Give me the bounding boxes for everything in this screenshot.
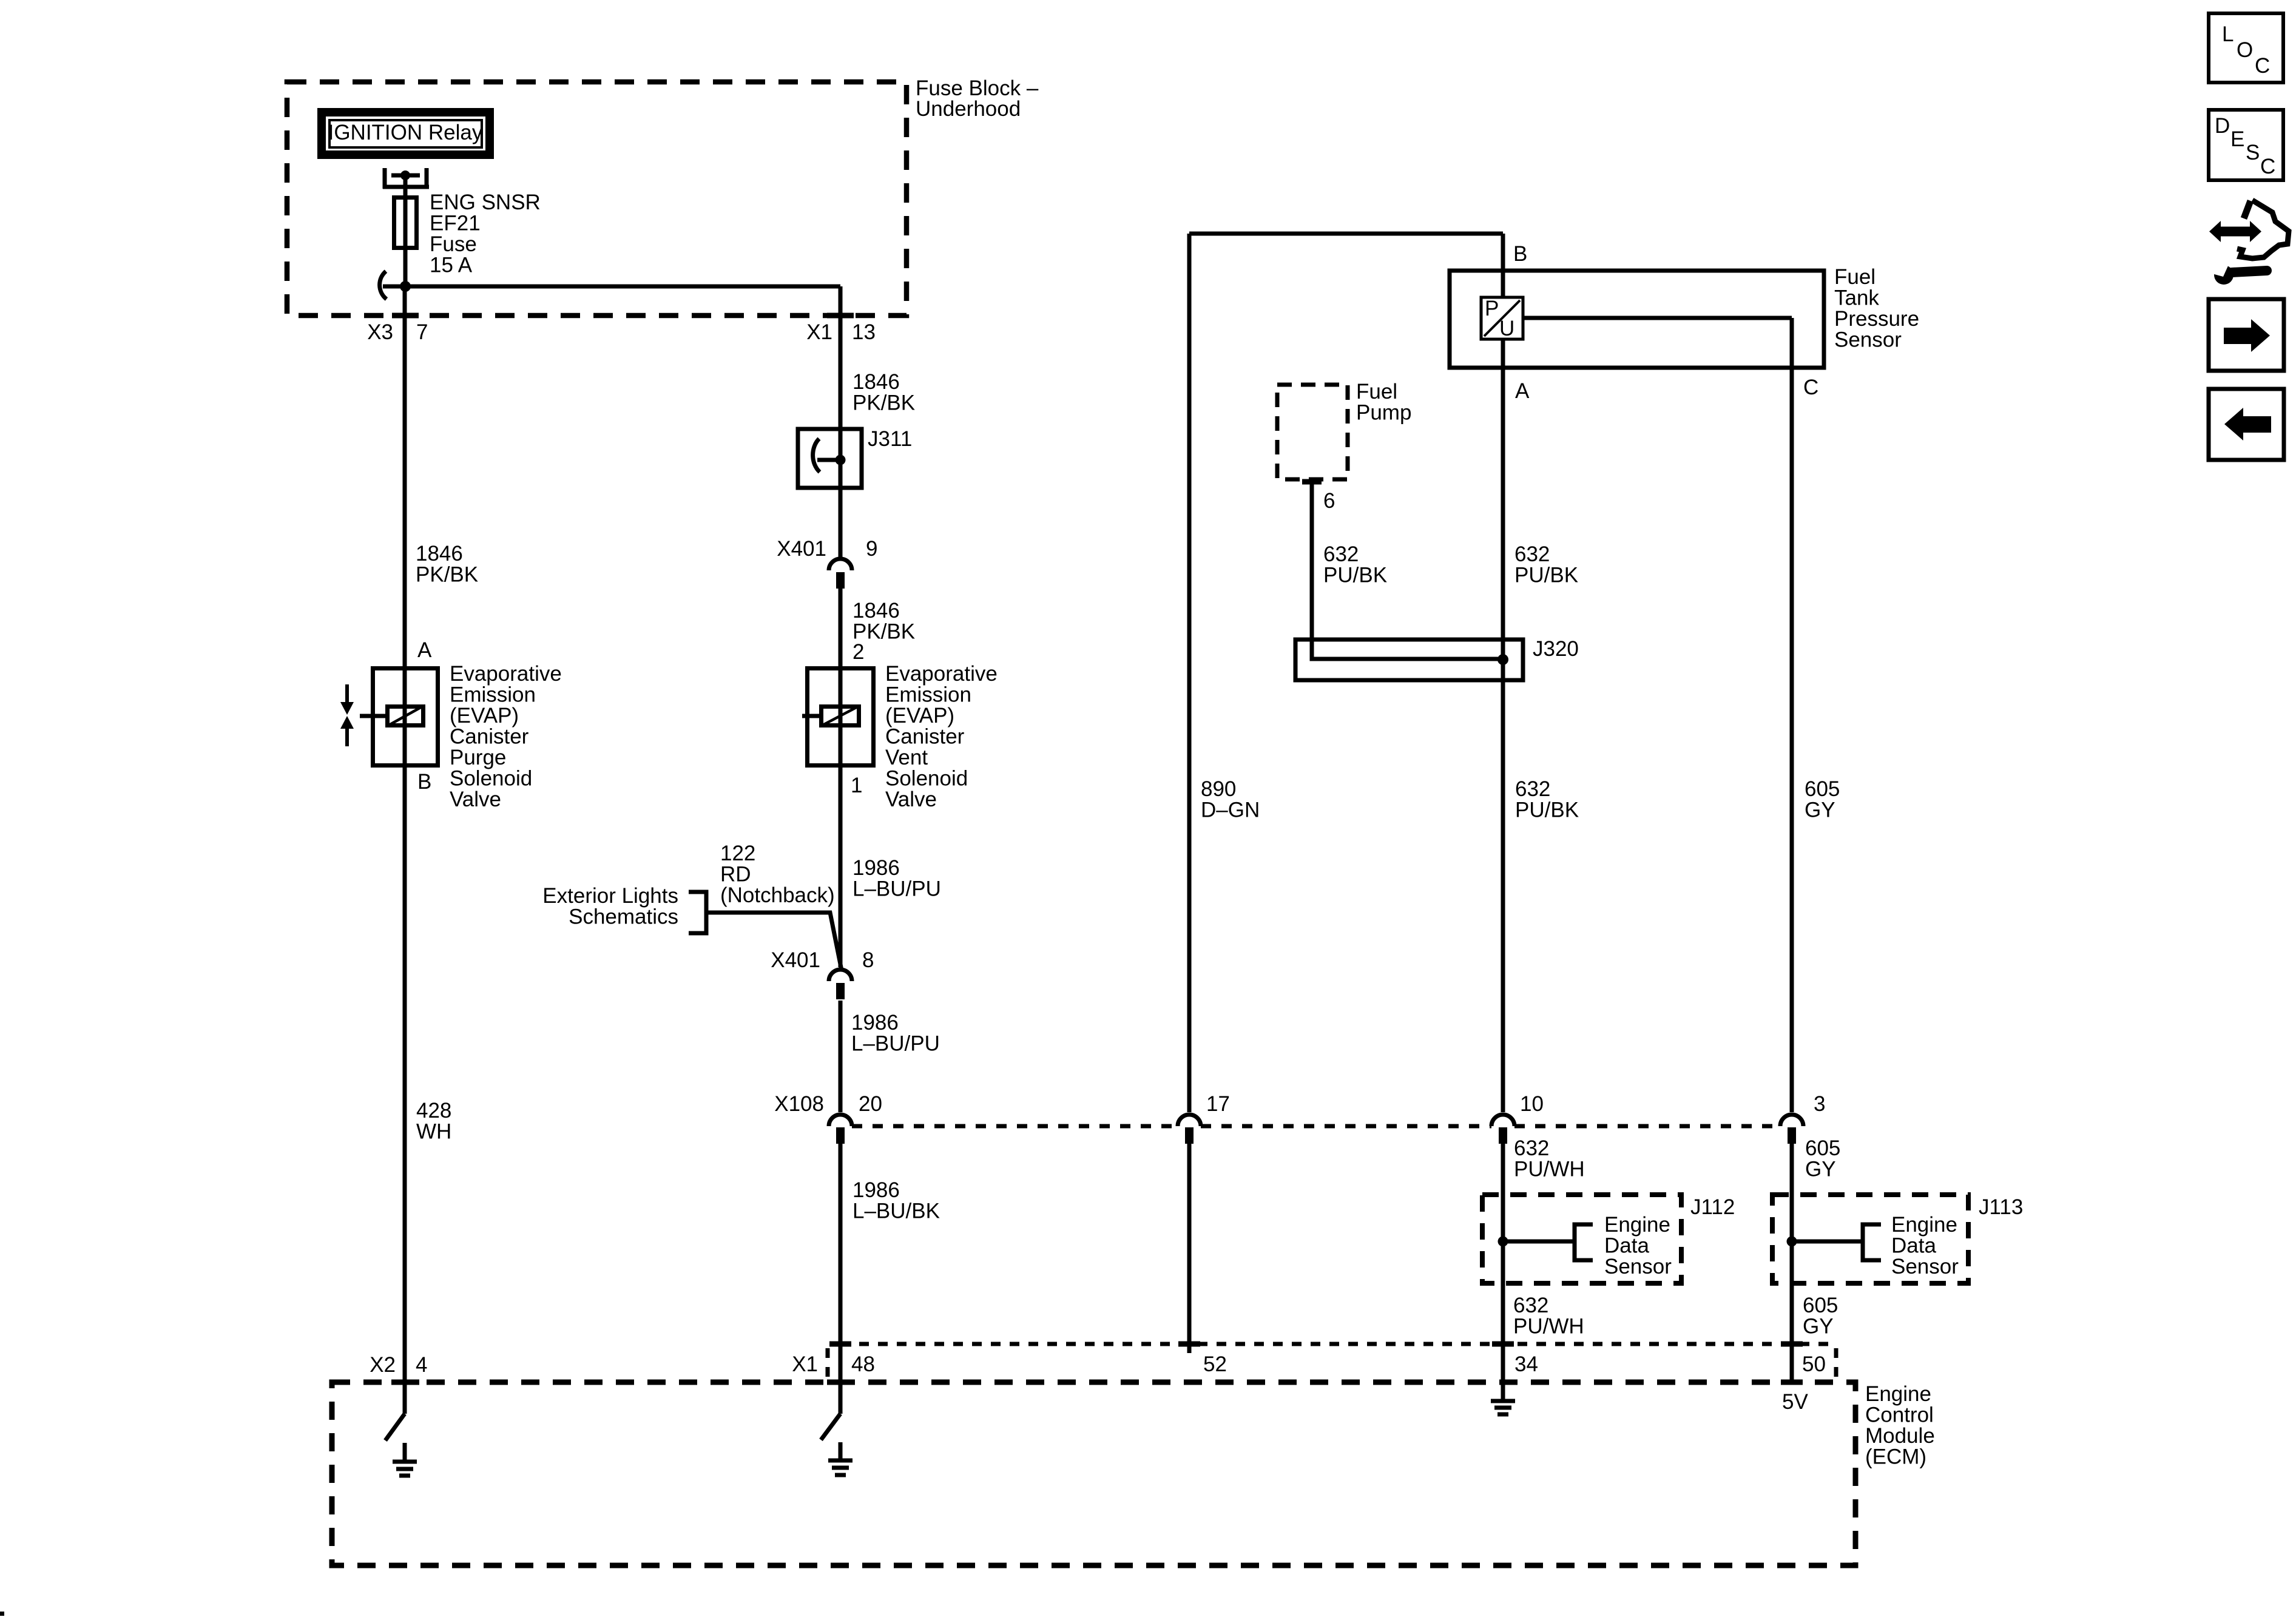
svg-text:A: A <box>417 638 432 662</box>
svg-text:632: 632 <box>1513 1294 1548 1317</box>
svg-text:1986: 1986 <box>853 856 900 880</box>
svg-text:IGNITION Relay: IGNITION Relay <box>328 121 483 144</box>
svg-text:Engine: Engine <box>1891 1213 1957 1237</box>
svg-text:632: 632 <box>1514 1136 1549 1160</box>
svg-text:428: 428 <box>416 1099 451 1122</box>
svg-text:Emission: Emission <box>885 683 971 707</box>
svg-text:122: 122 <box>720 842 755 865</box>
svg-text:Data: Data <box>1891 1234 1936 1258</box>
svg-text:3: 3 <box>1814 1092 1825 1116</box>
svg-text:A: A <box>1515 379 1530 403</box>
svg-text:1: 1 <box>851 774 862 797</box>
svg-text:PU/WH: PU/WH <box>1514 1158 1585 1181</box>
svg-text:1846: 1846 <box>853 599 900 623</box>
svg-text:WH: WH <box>416 1120 451 1144</box>
svg-text:C: C <box>1803 376 1818 399</box>
svg-text:J113: J113 <box>1979 1195 2023 1219</box>
svg-text:X3: X3 <box>367 320 393 344</box>
svg-text:RD: RD <box>720 863 751 886</box>
svg-text:2: 2 <box>853 640 864 664</box>
svg-text:Data: Data <box>1604 1234 1649 1258</box>
svg-text:605: 605 <box>1803 1294 1838 1317</box>
svg-text:J311: J311 <box>868 427 912 451</box>
svg-text:PU/WH: PU/WH <box>1513 1315 1584 1338</box>
svg-text:890: 890 <box>1201 777 1236 801</box>
svg-text:5V: 5V <box>1782 1390 1808 1414</box>
svg-text:S: S <box>2246 141 2260 164</box>
svg-text:X401: X401 <box>777 537 826 561</box>
svg-text:(EVAP): (EVAP) <box>450 704 519 727</box>
svg-text:Module: Module <box>1865 1424 1935 1448</box>
svg-text:632: 632 <box>1515 777 1550 801</box>
svg-text:52: 52 <box>1203 1352 1227 1376</box>
svg-text:Engine: Engine <box>1865 1382 1931 1406</box>
svg-text:ENG SNSR: ENG SNSR <box>430 191 541 214</box>
svg-text:7: 7 <box>416 320 428 344</box>
svg-text:Fuel: Fuel <box>1834 265 1876 289</box>
svg-text:Canister: Canister <box>450 725 529 749</box>
svg-text:1986: 1986 <box>851 1011 899 1035</box>
svg-text:6: 6 <box>1323 489 1335 513</box>
svg-text:8: 8 <box>862 948 874 972</box>
svg-text:L–BU/PU: L–BU/PU <box>853 877 941 901</box>
svg-text:Valve: Valve <box>450 788 501 811</box>
svg-text:GY: GY <box>1805 798 1835 822</box>
svg-text:D–GN: D–GN <box>1201 798 1260 822</box>
svg-text:Fuse: Fuse <box>430 232 477 256</box>
svg-text:Sensor: Sensor <box>1604 1255 1672 1278</box>
svg-text:20: 20 <box>859 1092 882 1116</box>
svg-text:C: C <box>2255 54 2270 78</box>
svg-text:P: P <box>1485 297 1499 320</box>
svg-text:Canister: Canister <box>885 725 965 749</box>
svg-text:X1: X1 <box>806 320 832 344</box>
svg-text:10: 10 <box>1520 1092 1544 1116</box>
svg-text:Sensor: Sensor <box>1834 328 1902 352</box>
svg-text:E: E <box>2230 127 2244 151</box>
svg-text:U: U <box>1499 317 1514 340</box>
svg-text:(Notchback): (Notchback) <box>720 883 835 907</box>
svg-text:34: 34 <box>1514 1352 1538 1376</box>
svg-text:PU/BK: PU/BK <box>1515 798 1579 822</box>
svg-text:Solenoid: Solenoid <box>885 767 968 791</box>
svg-text:Control: Control <box>1865 1403 1934 1427</box>
svg-text:X2: X2 <box>370 1353 396 1377</box>
svg-text:J112: J112 <box>1690 1195 1735 1219</box>
svg-text:Sensor: Sensor <box>1891 1255 1959 1278</box>
svg-text:15 A: 15 A <box>430 254 473 277</box>
svg-text:632: 632 <box>1323 542 1359 566</box>
svg-text:L: L <box>2222 22 2234 46</box>
svg-text:605: 605 <box>1805 1136 1840 1160</box>
svg-text:Pressure: Pressure <box>1834 307 1919 331</box>
svg-text:Schematics: Schematics <box>569 905 678 929</box>
svg-text:Emission: Emission <box>450 683 536 707</box>
svg-text:9: 9 <box>866 537 877 561</box>
svg-text:50: 50 <box>1802 1352 1826 1376</box>
svg-text:48: 48 <box>851 1352 875 1376</box>
svg-text:L–BU/PU: L–BU/PU <box>851 1032 940 1056</box>
svg-text:632: 632 <box>1514 542 1550 566</box>
svg-text:17: 17 <box>1206 1092 1230 1116</box>
svg-text:B: B <box>1513 242 1527 266</box>
svg-text:Solenoid: Solenoid <box>450 767 532 791</box>
svg-text:PU/BK: PU/BK <box>1323 564 1387 587</box>
svg-text:O: O <box>2237 38 2253 62</box>
svg-text:Pump: Pump <box>1356 401 1411 425</box>
svg-text:Evaporative: Evaporative <box>450 662 562 686</box>
svg-text:J320: J320 <box>1533 637 1579 661</box>
svg-text:D: D <box>2215 114 2230 138</box>
svg-text:GY: GY <box>1803 1315 1834 1338</box>
svg-text:X1: X1 <box>792 1352 818 1376</box>
svg-text:Exterior Lights: Exterior Lights <box>542 884 678 908</box>
svg-text:Fuel: Fuel <box>1356 380 1397 403</box>
svg-text:PK/BK: PK/BK <box>853 391 915 415</box>
svg-text:PK/BK: PK/BK <box>416 563 478 587</box>
svg-text:X401: X401 <box>771 948 820 972</box>
svg-text:1986: 1986 <box>853 1178 900 1202</box>
svg-text:GY: GY <box>1805 1158 1836 1181</box>
svg-text:X108: X108 <box>774 1092 824 1116</box>
svg-text:13: 13 <box>852 320 876 344</box>
svg-text:Purge: Purge <box>450 746 506 769</box>
svg-text:1846: 1846 <box>853 370 900 394</box>
svg-text:Vent: Vent <box>885 746 928 769</box>
svg-text:Evaporative: Evaporative <box>885 662 998 686</box>
svg-text:C: C <box>2260 155 2275 178</box>
svg-text:EF21: EF21 <box>430 212 481 235</box>
svg-text:605: 605 <box>1805 777 1840 801</box>
svg-text:PU/BK: PU/BK <box>1514 564 1578 587</box>
svg-text:(EVAP): (EVAP) <box>885 704 954 727</box>
svg-text:Valve: Valve <box>885 788 937 811</box>
svg-text:Engine: Engine <box>1604 1213 1670 1237</box>
svg-text:1846: 1846 <box>416 542 463 565</box>
svg-text:L–BU/BK: L–BU/BK <box>853 1200 940 1223</box>
svg-text:Underhood: Underhood <box>916 97 1021 121</box>
svg-text:(ECM): (ECM) <box>1865 1445 1926 1469</box>
svg-text:4: 4 <box>416 1353 427 1377</box>
svg-text:B: B <box>417 770 431 794</box>
svg-text:Tank: Tank <box>1834 286 1879 310</box>
